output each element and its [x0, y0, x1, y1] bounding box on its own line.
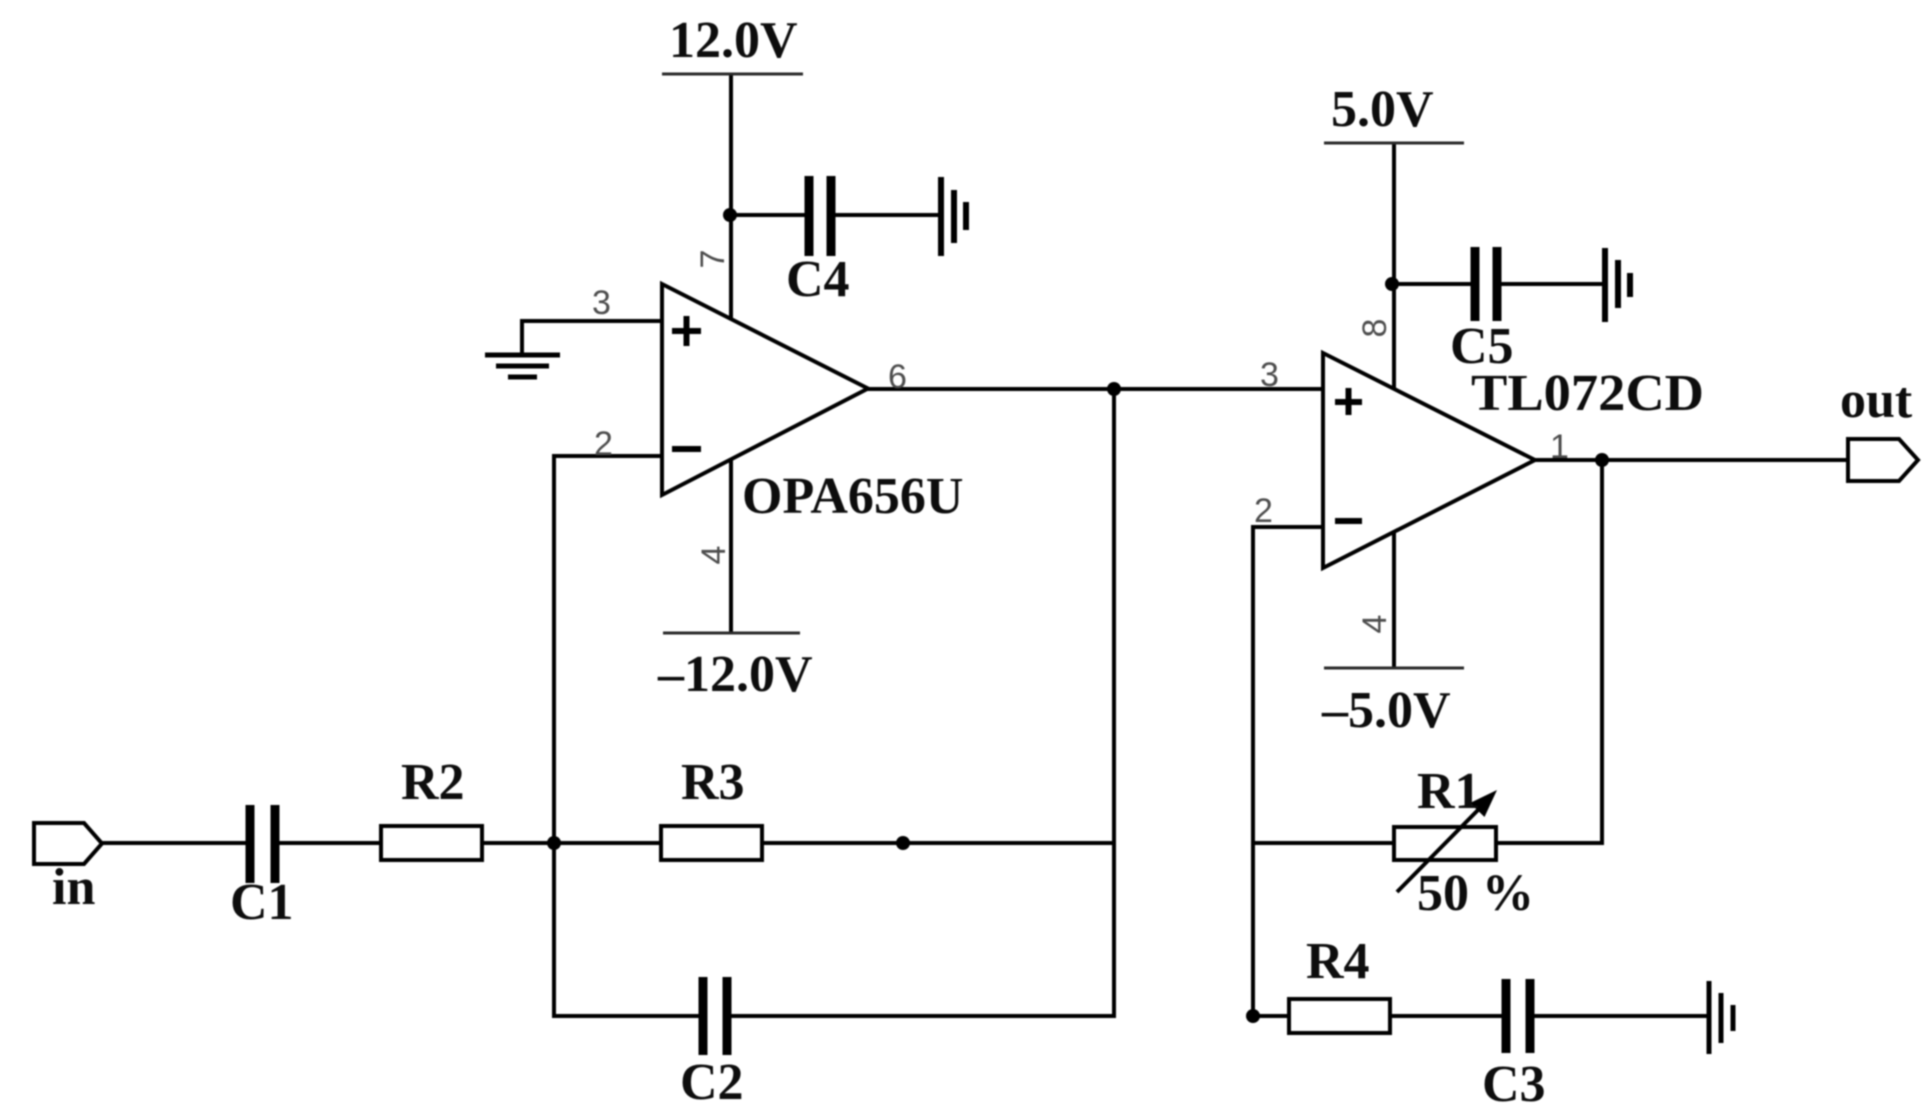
input port in	[34, 823, 102, 864]
svg-text:2: 2	[594, 425, 613, 463]
power rail 5.0V bar	[1324, 142, 1464, 145]
svg-text:–5.0V: –5.0V	[1321, 682, 1451, 739]
svg-text:OPA656U: OPA656U	[742, 468, 963, 525]
capacitor C1	[250, 805, 275, 883]
op-amp U2 minus input marker	[1335, 518, 1362, 524]
wire: C2 left	[552, 1014, 706, 1018]
svg-text:12.0V: 12.0V	[669, 12, 798, 69]
op-amp U1 plus input marker	[672, 316, 701, 346]
junction: U2 output node	[1595, 453, 1609, 467]
svg-text:R3: R3	[681, 754, 745, 811]
wire: U2 output to out port	[1533, 458, 1849, 462]
wire: U1 pin2	[552, 454, 664, 458]
op-amp U1 minus input marker	[672, 446, 701, 452]
output port out	[1848, 439, 1918, 481]
svg-text:–12.0V: –12.0V	[657, 646, 813, 703]
pin 7 of U1	[694, 250, 732, 269]
svg-text:C3: C3	[1482, 1056, 1546, 1111]
wire: U1 pin7 to 12.0V rail	[729, 73, 733, 321]
junction: pin7 / C4 node	[723, 208, 737, 222]
wire: pin2 vertical to R1	[1251, 841, 1398, 845]
wire: U1 pin4 to -12.0V rail	[729, 457, 733, 634]
svg-text:6: 6	[888, 358, 907, 396]
junction: R3 output node	[896, 836, 910, 850]
ground at C4	[941, 177, 966, 256]
wire: C1 to R2	[272, 841, 384, 845]
svg-text:8: 8	[1356, 319, 1394, 338]
wire: output vertical to R1	[1600, 458, 1604, 845]
wire: in port to C1	[101, 841, 252, 845]
wire: U2 pin2 vertical to R1 and R4	[1251, 525, 1255, 1018]
power rail -5.0V bar	[1324, 667, 1464, 670]
svg-text:C4: C4	[786, 251, 850, 308]
wire: C4 to ground	[833, 213, 939, 217]
wire: U1 output to U2 pin3	[866, 387, 1325, 391]
svg-text:1: 1	[1550, 428, 1569, 466]
wire: R3 to feedback vertical	[760, 841, 1116, 845]
wire: R2 to R3 through node A	[478, 841, 664, 845]
capacitor C5	[1475, 247, 1497, 321]
resistor R4	[1289, 999, 1390, 1033]
svg-text:3: 3	[592, 284, 611, 322]
op-amp U2 TL072CD body	[1323, 353, 1535, 568]
wire: U2 pin4 to -5.0V rail	[1392, 530, 1396, 669]
wire: node A vertical to U1 pin2 and C2	[552, 456, 556, 1018]
wire: C5 to ground	[1500, 282, 1602, 286]
wire: R4 to C3	[1386, 1014, 1508, 1018]
op-amp U1 OPA656U body	[662, 284, 868, 495]
svg-text:out: out	[1840, 372, 1913, 429]
wire: R4 node to R4	[1251, 1014, 1293, 1018]
svg-text:R4: R4	[1306, 933, 1370, 990]
wire: R1 to output vertical	[1492, 841, 1604, 845]
svg-text:R2: R2	[401, 754, 465, 811]
wire: C3 to ground	[1532, 1014, 1707, 1018]
svg-text:3: 3	[1260, 356, 1279, 394]
ground at C3	[1709, 981, 1733, 1054]
pin 4 of U2	[1356, 615, 1394, 634]
resistor R3	[661, 826, 762, 860]
wire: pin7 node to C4	[729, 213, 807, 217]
svg-text:50 %: 50 %	[1417, 865, 1534, 922]
svg-text:2: 2	[1254, 492, 1273, 530]
junction: pin8 / C5 node	[1385, 277, 1399, 291]
svg-text:4: 4	[1356, 615, 1394, 634]
svg-text:5.0V: 5.0V	[1331, 81, 1434, 138]
svg-text:in: in	[52, 859, 95, 916]
capacitor C2	[703, 977, 727, 1055]
power rail -12.0V bar	[663, 632, 800, 635]
capacitor C3	[1506, 979, 1530, 1053]
resistor R2	[381, 826, 482, 860]
svg-text:C1: C1	[230, 874, 294, 931]
svg-text:4: 4	[695, 546, 733, 565]
svg-text:C2: C2	[680, 1054, 744, 1111]
junction: node A	[547, 836, 561, 850]
op-amp U2 plus input marker	[1335, 388, 1362, 415]
wire: U1 pin3	[522, 319, 664, 323]
power rail 12.0V bar	[662, 73, 803, 76]
wire: U2 pin8 to 5.0V rail	[1392, 142, 1396, 391]
junction: R4 node	[1246, 1009, 1260, 1023]
capacitor C4	[809, 176, 831, 256]
potentiometer R1 body	[1394, 827, 1496, 860]
junction: U1 output node	[1107, 382, 1121, 396]
wire: feedback vertical from U1 output to C2	[1112, 387, 1116, 1018]
wire: C2 right	[724, 1014, 1116, 1018]
svg-text:7: 7	[694, 250, 732, 269]
pin 8 of U2	[1356, 319, 1394, 338]
wire: pin8 node to C5	[1392, 282, 1471, 286]
wire: U1 pin3 ground drop	[520, 319, 524, 355]
ground at C5	[1605, 248, 1630, 322]
wire: U2 pin2	[1251, 525, 1325, 529]
potentiometer R1 arrow	[1397, 790, 1497, 892]
pin 4 of U1	[695, 546, 733, 565]
svg-text:TL072CD: TL072CD	[1471, 365, 1704, 422]
svg-text:R1: R1	[1417, 763, 1481, 820]
ground at U1 pin3	[485, 355, 560, 377]
